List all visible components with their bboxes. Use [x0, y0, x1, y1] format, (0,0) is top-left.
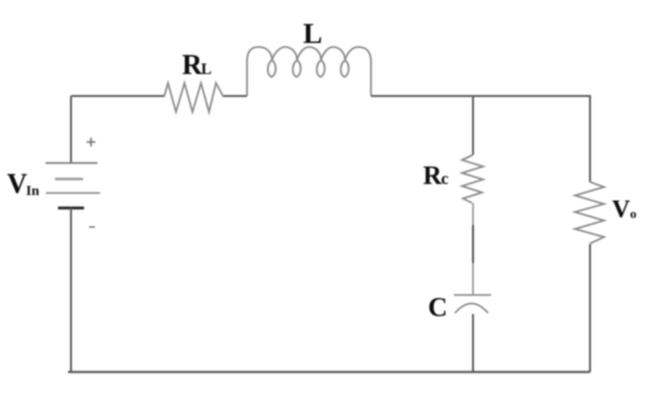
resistor Vo (load)	[575, 182, 604, 244]
wire darker mid segment	[472, 225, 474, 263]
wire between RL and L	[224, 95, 248, 97]
battery Vin plate 4 (short -)	[58, 207, 84, 210]
plus sign	[87, 138, 96, 147]
wire middle vertical lower	[472, 314, 474, 372]
resistor RC	[462, 155, 483, 203]
svg-text:R: R	[423, 161, 442, 190]
bottom wire	[68, 371, 590, 373]
svg-text:V: V	[7, 169, 27, 200]
wire top-right horizontal	[371, 95, 590, 97]
svg-text:L: L	[201, 61, 212, 78]
resistor RL	[164, 83, 224, 112]
wire middle vertical upper	[472, 96, 474, 155]
capacitor C curved plate	[455, 304, 488, 314]
svg-text:R: R	[182, 50, 203, 81]
svg-text:L: L	[303, 18, 322, 50]
wire top-left horizontal	[71, 95, 164, 97]
wire right vertical upper	[589, 95, 591, 182]
svg-text:C: C	[428, 292, 448, 322]
battery Vin plate 3 (long +)	[46, 192, 100, 194]
battery Vin plate 2 (short -)	[55, 178, 83, 180]
wire left vertical upper	[70, 96, 72, 163]
capacitor C top plate	[454, 294, 491, 296]
minus sign	[89, 226, 95, 228]
inductor L	[247, 47, 371, 96]
svg-text:o: o	[630, 206, 637, 221]
battery Vin plate 1 (long +)	[46, 162, 98, 164]
wire middle vertical mid	[472, 203, 474, 295]
wire right vertical lower	[589, 244, 591, 372]
wire left vertical lower	[70, 208, 72, 372]
svg-text:In: In	[26, 184, 39, 199]
svg-text:V: V	[612, 196, 630, 223]
svg-text:c: c	[441, 169, 449, 188]
